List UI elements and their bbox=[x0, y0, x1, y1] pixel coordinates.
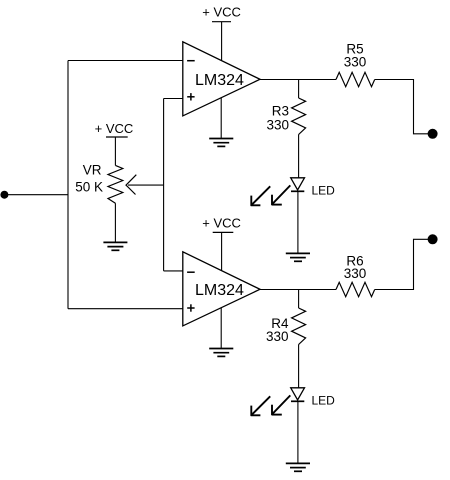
wire R6 to output terminal 2 bbox=[375, 239, 428, 289]
wire LED D1 to ground bbox=[297, 191, 299, 253]
wire R5 to output terminal 1 bbox=[375, 80, 428, 134]
wire to U1B inverting input bbox=[164, 270, 183, 272]
wire R4 to LED D2 bbox=[298, 345, 300, 388]
output terminal dot 1 bbox=[428, 129, 438, 139]
ground LED D1 bbox=[286, 253, 310, 261]
potentiometer VR 50K bbox=[75, 162, 123, 203]
resistor R3 bbox=[266, 98, 305, 135]
wire VR to ground bbox=[114, 203, 116, 242]
input terminal dot bbox=[0, 191, 8, 199]
svg-text:LED: LED bbox=[312, 393, 336, 407]
wire to U1A non-inverting input bbox=[164, 98, 183, 100]
svg-text:+ VCC: + VCC bbox=[202, 5, 241, 20]
op-amp U1B bbox=[183, 252, 260, 326]
svg-text:+ VCC: + VCC bbox=[95, 121, 134, 136]
svg-text:330: 330 bbox=[266, 329, 289, 344]
wire R3 to LED D1 bbox=[298, 135, 300, 178]
wire LED D2 to ground bbox=[297, 401, 299, 463]
wire left bus vertical bbox=[67, 61, 69, 309]
VCC VR bbox=[95, 121, 134, 165]
svg-text:330: 330 bbox=[344, 266, 367, 281]
wire right bus vertical bbox=[163, 99, 165, 271]
svg-text:LM324: LM324 bbox=[195, 72, 244, 89]
resistor R6 bbox=[336, 253, 375, 296]
resistor R4 bbox=[266, 308, 306, 345]
op-amp U1A bbox=[183, 42, 260, 116]
wire input to left bus bbox=[4, 194, 68, 196]
svg-text:LED: LED bbox=[312, 183, 336, 197]
output terminal dot 2 bbox=[428, 234, 438, 244]
resistor R5 bbox=[336, 41, 375, 86]
wire VR wiper arrow bbox=[126, 175, 163, 195]
ground LED D2 bbox=[286, 463, 310, 471]
wire to U1A inverting input bbox=[68, 60, 183, 62]
ground U1B bbox=[209, 308, 233, 356]
ground VR bbox=[103, 242, 127, 250]
svg-text:R3: R3 bbox=[272, 103, 289, 118]
svg-text:LM324: LM324 bbox=[195, 282, 244, 299]
ground U1A bbox=[209, 98, 233, 146]
svg-text:VR: VR bbox=[83, 162, 102, 177]
wire U1B output bbox=[260, 289, 336, 291]
svg-text:+ VCC: + VCC bbox=[202, 215, 241, 230]
svg-text:330: 330 bbox=[344, 54, 367, 69]
wire U1A output bbox=[260, 79, 336, 81]
VCC U1A bbox=[202, 5, 241, 61]
svg-text:330: 330 bbox=[266, 118, 289, 133]
wire to U1B non-inverting input bbox=[68, 308, 183, 310]
VCC U1B bbox=[202, 215, 241, 270]
wire junction to R3 bbox=[298, 80, 300, 99]
LED D2 bbox=[251, 388, 335, 416]
LED D1 bbox=[251, 178, 335, 206]
wire junction to R4 bbox=[298, 290, 300, 309]
svg-text:50 K: 50 K bbox=[75, 179, 103, 194]
